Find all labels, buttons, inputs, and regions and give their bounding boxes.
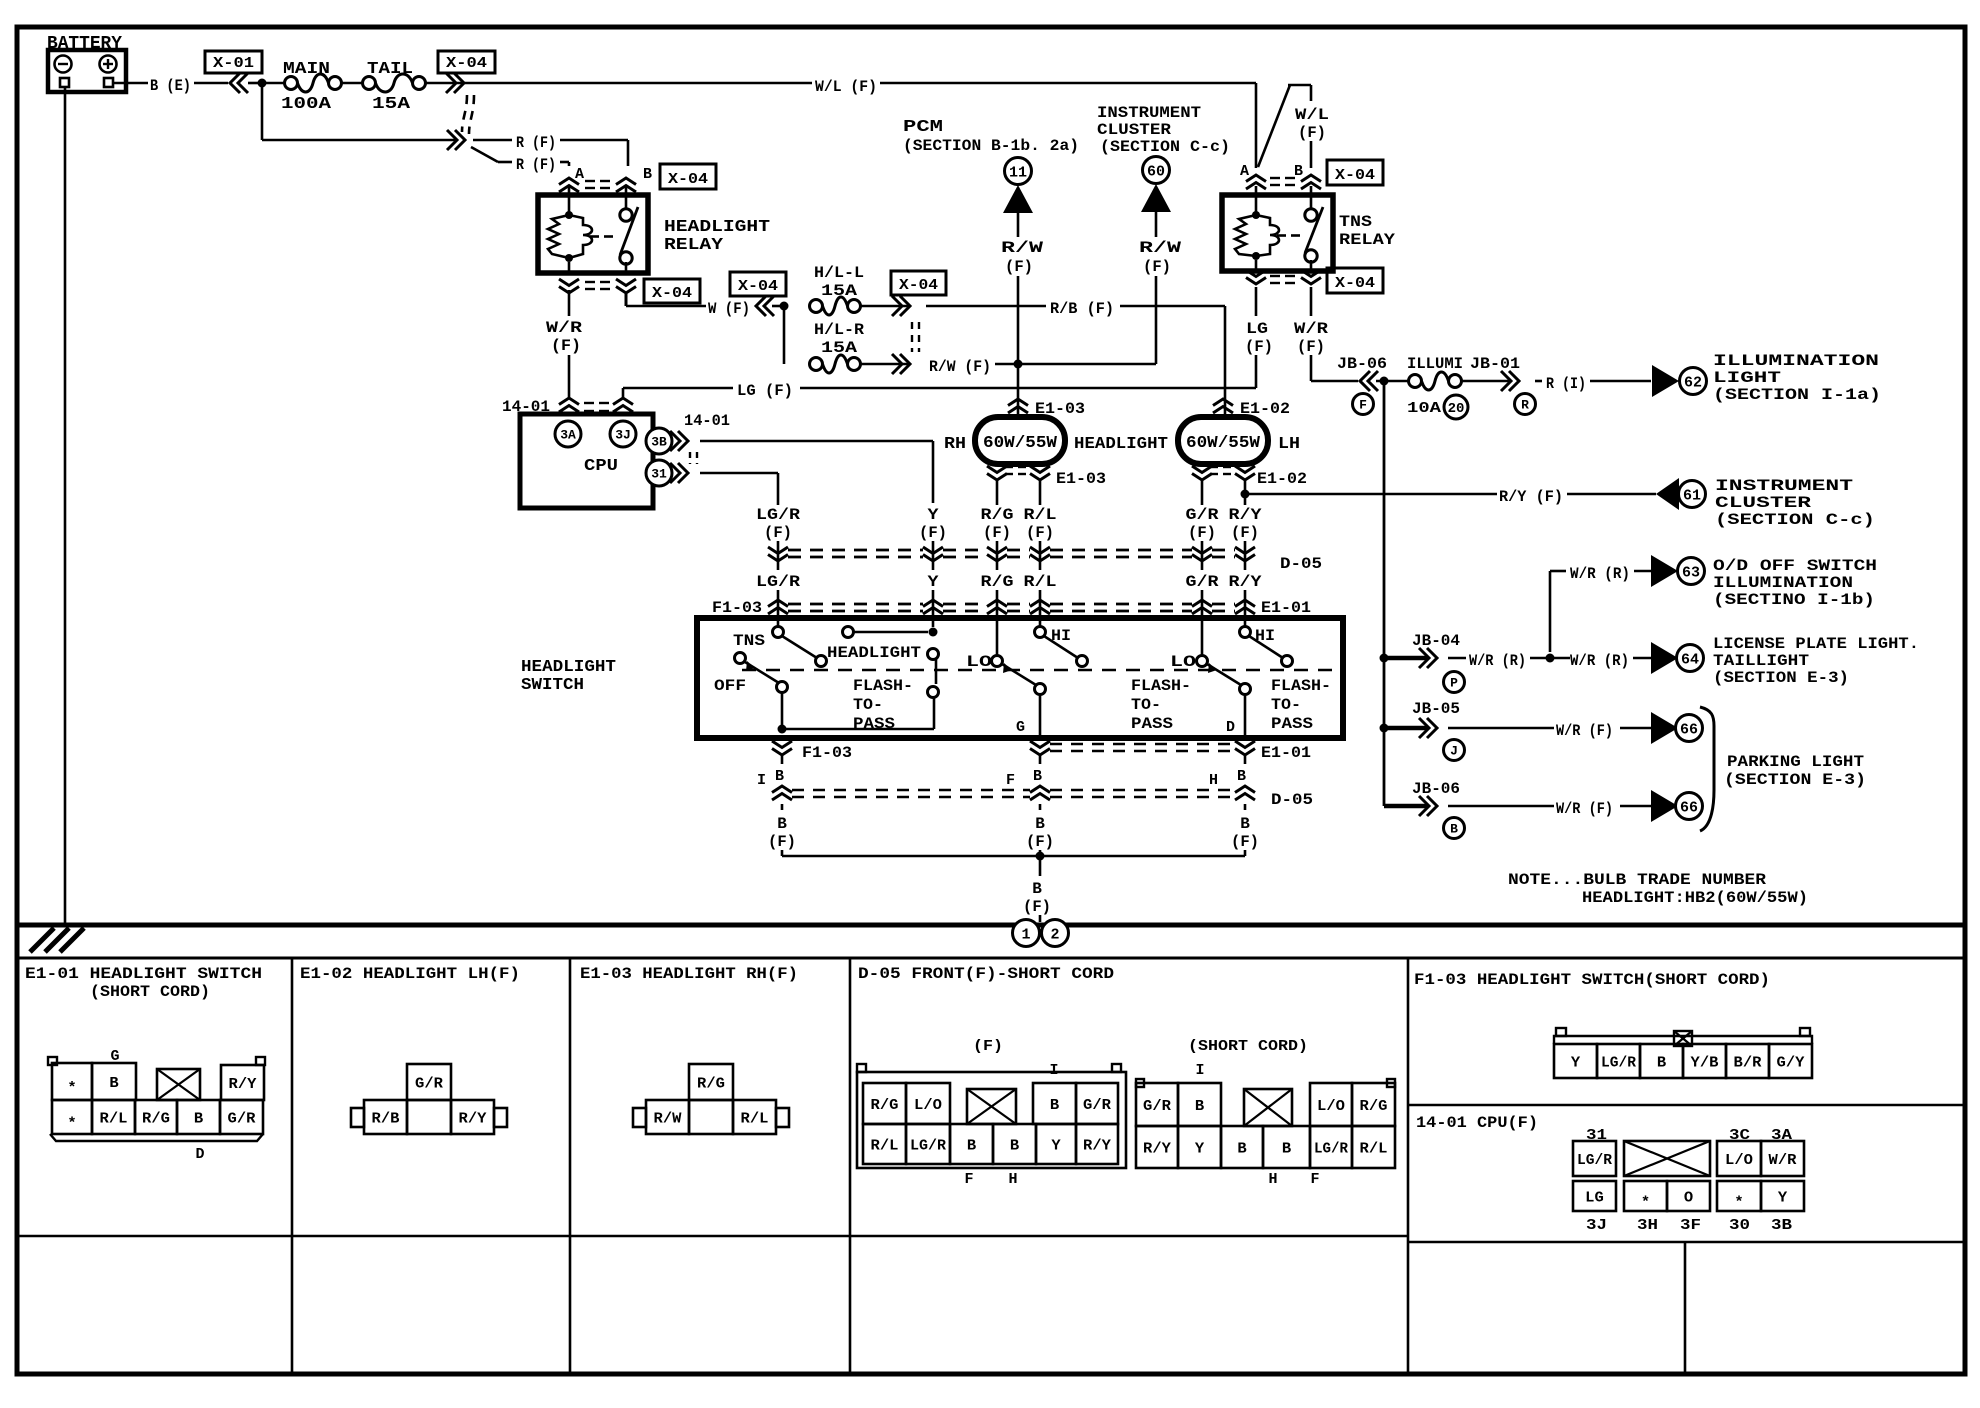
svg-text:B (E): B (E): [150, 77, 191, 95]
svg-text:G/Y: G/Y: [1777, 1054, 1805, 1071]
svg-text:F1-03: F1-03: [802, 744, 852, 762]
svg-text:CPU: CPU: [584, 457, 618, 476]
svg-text:B: B: [967, 1137, 976, 1154]
svg-text:R/Y: R/Y: [1083, 1137, 1111, 1154]
svg-text:R/W: R/W: [1139, 239, 1182, 257]
svg-text:(SHORT CORD): (SHORT CORD): [1188, 1038, 1308, 1055]
svg-text:A: A: [575, 166, 584, 183]
svg-text:X-04: X-04: [899, 277, 938, 294]
svg-text:B: B: [643, 166, 652, 183]
svg-text:G/R: G/R: [228, 1110, 256, 1127]
svg-text:E1-03: E1-03: [1056, 470, 1106, 488]
svg-text:62: 62: [1684, 374, 1702, 391]
svg-text:LICENSE PLATE LIGHT.: LICENSE PLATE LIGHT.: [1713, 635, 1919, 653]
svg-text:CLUSTER: CLUSTER: [1715, 494, 1812, 512]
svg-text:B: B: [109, 1075, 118, 1092]
svg-text:61: 61: [1683, 487, 1701, 504]
svg-text:B: B: [194, 1110, 203, 1127]
svg-text:B: B: [1033, 768, 1042, 785]
svg-text:60W/55W: 60W/55W: [983, 434, 1058, 453]
svg-text:B: B: [1282, 1140, 1291, 1157]
svg-text:R/L: R/L: [100, 1110, 128, 1127]
svg-text:(SECTION I-1a): (SECTION I-1a): [1713, 386, 1881, 404]
svg-text:B: B: [775, 768, 784, 785]
svg-text:HEADLIGHT: HEADLIGHT: [1074, 435, 1168, 454]
svg-text:F1-03 HEADLIGHT SWITCH(SHORT C: F1-03 HEADLIGHT SWITCH(SHORT CORD): [1414, 971, 1770, 989]
svg-text:R/Y: R/Y: [1229, 573, 1262, 591]
svg-text:L/O: L/O: [914, 1097, 942, 1114]
svg-text:G/R: G/R: [1186, 573, 1219, 591]
svg-text:I: I: [757, 772, 766, 789]
svg-text:R/Y: R/Y: [1229, 506, 1262, 524]
svg-text:10A: 10A: [1407, 400, 1441, 417]
svg-text:RELAY: RELAY: [664, 236, 724, 255]
svg-text:ILLUMI: ILLUMI: [1407, 355, 1463, 373]
svg-text:F: F: [964, 1171, 973, 1188]
svg-text:X-04: X-04: [652, 285, 692, 302]
svg-text:ILLUMINATION: ILLUMINATION: [1713, 352, 1879, 370]
svg-text:B: B: [777, 815, 787, 833]
svg-text:INSTRUMENT: INSTRUMENT: [1715, 477, 1854, 495]
svg-text:R/Y: R/Y: [1143, 1140, 1171, 1157]
svg-text:R/L: R/L: [741, 1110, 769, 1127]
svg-text:PARKING LIGHT: PARKING LIGHT: [1727, 753, 1864, 771]
svg-text:R/W (F): R/W (F): [929, 358, 991, 376]
svg-text:(F): (F): [1026, 524, 1054, 542]
svg-text:Y: Y: [928, 573, 939, 591]
svg-text:R/W: R/W: [654, 1110, 682, 1127]
svg-text:X-04: X-04: [1335, 167, 1375, 184]
svg-text:X-04: X-04: [668, 171, 708, 188]
svg-text:P: P: [1450, 676, 1458, 691]
svg-text:(F): (F): [1026, 833, 1054, 851]
svg-text:PCM: PCM: [903, 118, 943, 137]
svg-text:HEADLIGHT: HEADLIGHT: [521, 658, 616, 677]
svg-text:E1-02 HEADLIGHT LH(F): E1-02 HEADLIGHT LH(F): [300, 965, 520, 983]
svg-text:B: B: [1450, 822, 1458, 837]
svg-text:60W/55W: 60W/55W: [1186, 434, 1261, 453]
svg-text:(SECTION E-3): (SECTION E-3): [1713, 669, 1849, 687]
svg-text:R/Y: R/Y: [459, 1110, 487, 1127]
svg-text:JB-06: JB-06: [1412, 780, 1460, 798]
svg-text:LG/R: LG/R: [756, 506, 800, 524]
svg-text:FLASH-: FLASH-: [1131, 677, 1191, 695]
svg-text:R (F): R (F): [516, 134, 556, 152]
svg-text:W/R (F): W/R (F): [1556, 800, 1613, 818]
svg-text:CLUSTER: CLUSTER: [1097, 121, 1171, 139]
svg-text:R/G: R/G: [981, 506, 1014, 524]
svg-text:FLASH-: FLASH-: [853, 677, 913, 695]
svg-text:1: 1: [1021, 926, 1030, 943]
svg-text:F1-03: F1-03: [712, 599, 762, 617]
svg-text:R (F): R (F): [516, 156, 556, 174]
svg-text:(F): (F): [1023, 898, 1051, 916]
svg-text:3A: 3A: [560, 428, 576, 443]
svg-text:R/W: R/W: [1001, 239, 1044, 257]
svg-text:R/L: R/L: [1024, 506, 1057, 524]
svg-text:30: 30: [1729, 1217, 1750, 1234]
svg-text:(F): (F): [1297, 338, 1325, 356]
svg-text:R/B: R/B: [372, 1110, 400, 1127]
svg-text:A: A: [1240, 163, 1249, 180]
svg-text:11: 11: [1009, 164, 1027, 181]
svg-text:R/G: R/G: [697, 1075, 725, 1092]
svg-text:JB-01: JB-01: [1470, 355, 1520, 373]
svg-text:X-04: X-04: [446, 55, 487, 72]
svg-text:JB-04: JB-04: [1412, 632, 1460, 650]
svg-text:H: H: [1209, 772, 1218, 789]
svg-text:H: H: [1008, 1171, 1017, 1188]
svg-text:Y/B: Y/B: [1691, 1054, 1719, 1071]
svg-text:W/L: W/L: [1295, 106, 1329, 124]
svg-text:W/R (R): W/R (R): [1570, 565, 1630, 583]
svg-text:NOTE...BULB TRADE NUMBER: NOTE...BULB TRADE NUMBER: [1508, 871, 1766, 889]
svg-text:G/R: G/R: [415, 1075, 443, 1092]
svg-text:B: B: [1657, 1054, 1666, 1071]
svg-text:LG/R: LG/R: [1577, 1152, 1612, 1169]
svg-text:B: B: [1010, 1137, 1019, 1154]
svg-text:RELAY: RELAY: [1339, 231, 1395, 249]
svg-text:D: D: [195, 1146, 204, 1163]
svg-text:HEADLIGHT:HB2(60W/55W): HEADLIGHT:HB2(60W/55W): [1582, 889, 1808, 907]
svg-text:(F): (F): [973, 1038, 1003, 1055]
svg-text:B: B: [1035, 815, 1045, 833]
svg-text:3J: 3J: [615, 428, 631, 443]
svg-text:OFF: OFF: [714, 677, 746, 695]
svg-text:14-01: 14-01: [684, 412, 730, 430]
svg-text:*: *: [1641, 1194, 1650, 1211]
svg-text:O/D OFF SWITCH: O/D OFF SWITCH: [1713, 557, 1877, 575]
svg-text:B: B: [1032, 880, 1042, 898]
svg-text:PASS: PASS: [1271, 715, 1313, 733]
svg-text:LG/R: LG/R: [1314, 1140, 1348, 1157]
svg-text:G/R: G/R: [1083, 1097, 1111, 1114]
svg-text:W/R (F): W/R (F): [1556, 722, 1613, 740]
svg-text:B: B: [1294, 163, 1303, 180]
svg-text:B: B: [1050, 1097, 1059, 1114]
svg-text:TNS: TNS: [1339, 213, 1372, 231]
svg-text:B: B: [1237, 1140, 1246, 1157]
svg-text:W/R: W/R: [1294, 320, 1328, 338]
svg-text:(F): (F): [1298, 124, 1326, 142]
svg-text:R/G: R/G: [981, 573, 1014, 591]
svg-text:RH: RH: [944, 435, 966, 454]
svg-text:(F): (F): [1231, 524, 1259, 542]
svg-text:JB-06: JB-06: [1337, 355, 1387, 373]
svg-text:15A: 15A: [372, 95, 411, 114]
svg-text:L/O: L/O: [1725, 1152, 1753, 1169]
svg-text:LG: LG: [1585, 1189, 1604, 1206]
svg-text:R/G: R/G: [1360, 1098, 1388, 1115]
svg-text:Y: Y: [1778, 1189, 1787, 1206]
svg-text:(F): (F): [1143, 258, 1171, 276]
svg-text:(SECTION B-1b. 2a): (SECTION B-1b. 2a): [903, 137, 1079, 155]
svg-text:31: 31: [651, 467, 667, 482]
svg-text:Y: Y: [1051, 1137, 1060, 1154]
svg-text:ILLUMINATION: ILLUMINATION: [1713, 574, 1853, 592]
svg-text:E1-01 HEADLIGHT SWITCH: E1-01 HEADLIGHT SWITCH: [25, 965, 262, 983]
svg-text:W (F): W (F): [708, 300, 750, 318]
svg-text:TO-: TO-: [1271, 696, 1301, 714]
svg-text:14-01 CPU(F): 14-01 CPU(F): [1416, 1114, 1538, 1132]
svg-text:20: 20: [1448, 401, 1465, 417]
svg-text:LG (F): LG (F): [737, 382, 793, 400]
svg-text:64: 64: [1681, 651, 1699, 668]
svg-text:W/R (R): W/R (R): [1570, 652, 1629, 670]
svg-text:LG/R: LG/R: [910, 1137, 946, 1154]
svg-text:B: B: [1237, 768, 1246, 785]
svg-text:*: *: [67, 1080, 76, 1097]
svg-text:D: D: [1226, 719, 1235, 736]
svg-text:(SECTION C-c): (SECTION C-c): [1715, 511, 1875, 529]
svg-text:(SECTINO I-1b): (SECTINO I-1b): [1713, 591, 1875, 609]
svg-text:TO-: TO-: [853, 696, 883, 714]
svg-text:JB-05: JB-05: [1412, 700, 1460, 718]
svg-text:3F: 3F: [1680, 1217, 1701, 1234]
svg-text:3B: 3B: [1771, 1217, 1792, 1234]
svg-text:H: H: [1268, 1171, 1277, 1188]
svg-text:(SHORT CORD): (SHORT CORD): [90, 983, 210, 1001]
svg-text:R: R: [1521, 398, 1529, 413]
svg-text:(SECTION C-c): (SECTION C-c): [1100, 138, 1230, 156]
svg-text:X-04: X-04: [738, 278, 778, 295]
svg-text:(F): (F): [764, 524, 792, 542]
svg-text:INSTRUMENT: INSTRUMENT: [1097, 104, 1201, 122]
svg-text:D-05 FRONT(F)-SHORT CORD: D-05 FRONT(F)-SHORT CORD: [858, 965, 1114, 983]
svg-text:B/R: B/R: [1734, 1054, 1762, 1071]
svg-text:R/L: R/L: [871, 1137, 899, 1154]
svg-text:100A: 100A: [281, 95, 332, 114]
svg-text:R/G: R/G: [142, 1110, 170, 1127]
svg-text:H/L-L: H/L-L: [814, 264, 864, 282]
svg-text:TNS: TNS: [733, 632, 765, 650]
svg-text:R/Y: R/Y: [229, 1076, 257, 1093]
svg-text:66: 66: [1680, 721, 1698, 738]
svg-text:LO: LO: [966, 653, 993, 671]
svg-text:R/L: R/L: [1024, 573, 1057, 591]
svg-text:(SECTION E-3): (SECTION E-3): [1724, 771, 1866, 789]
svg-text:3H: 3H: [1637, 1217, 1658, 1234]
svg-text:FLASH-: FLASH-: [1271, 677, 1331, 695]
svg-text:I: I: [1195, 1062, 1204, 1079]
svg-text:D-05: D-05: [1271, 791, 1313, 809]
svg-text:3J: 3J: [1586, 1217, 1607, 1234]
svg-text:B: B: [1240, 815, 1250, 833]
svg-text:TAILLIGHT: TAILLIGHT: [1713, 652, 1809, 670]
svg-text:F: F: [1006, 772, 1015, 789]
svg-text:D-05: D-05: [1280, 555, 1322, 573]
svg-text:(F): (F): [551, 337, 581, 355]
svg-text:B: B: [1195, 1098, 1204, 1115]
svg-text:(F): (F): [1005, 258, 1033, 276]
svg-text:HEADLIGHT: HEADLIGHT: [664, 218, 770, 237]
svg-text:R/G: R/G: [871, 1097, 899, 1114]
svg-text:E1-02: E1-02: [1257, 470, 1307, 488]
svg-text:LG/R: LG/R: [1601, 1054, 1636, 1071]
svg-text:R (I): R (I): [1546, 375, 1586, 393]
svg-text:*: *: [67, 1115, 76, 1132]
svg-text:(F): (F): [1245, 338, 1273, 356]
svg-text:F: F: [1359, 398, 1367, 413]
svg-text:LG/R: LG/R: [756, 573, 800, 591]
svg-text:*: *: [1734, 1194, 1743, 1211]
svg-text:O: O: [1684, 1189, 1693, 1206]
svg-text:(F): (F): [768, 833, 796, 851]
svg-text:G/R: G/R: [1143, 1098, 1171, 1115]
svg-text:J: J: [1450, 744, 1458, 759]
svg-text:Y: Y: [1195, 1140, 1204, 1157]
svg-text:L/O: L/O: [1317, 1098, 1345, 1115]
svg-text:W/R: W/R: [1769, 1152, 1797, 1169]
svg-text:(F): (F): [983, 524, 1011, 542]
svg-text:HEADLIGHT: HEADLIGHT: [827, 644, 921, 662]
svg-text:Y: Y: [1571, 1054, 1580, 1071]
svg-text:G/R: G/R: [1186, 506, 1219, 524]
svg-text:LG: LG: [1246, 320, 1268, 338]
svg-text:W/R (R): W/R (R): [1469, 652, 1526, 670]
svg-text:H/L-R: H/L-R: [814, 321, 864, 339]
svg-text:F: F: [1310, 1171, 1319, 1188]
svg-text:R/Y (F): R/Y (F): [1499, 488, 1563, 506]
svg-text:66: 66: [1680, 799, 1698, 816]
svg-text:E1-01: E1-01: [1261, 744, 1311, 762]
svg-text:LH: LH: [1278, 435, 1300, 454]
svg-text:E1-01: E1-01: [1261, 599, 1311, 617]
svg-text:SWITCH: SWITCH: [521, 676, 584, 695]
svg-text:PASS: PASS: [1131, 715, 1173, 733]
svg-text:LO: LO: [1170, 653, 1197, 671]
svg-text:2: 2: [1050, 926, 1059, 943]
svg-text:(F): (F): [1188, 524, 1216, 542]
svg-text:R/L: R/L: [1360, 1140, 1388, 1157]
svg-text:(F): (F): [919, 524, 947, 542]
svg-text:X-04: X-04: [1335, 275, 1375, 292]
svg-text:TO-: TO-: [1131, 696, 1161, 714]
svg-text:Y: Y: [928, 506, 939, 524]
svg-text:3B: 3B: [651, 435, 667, 450]
svg-text:E1-03 HEADLIGHT RH(F): E1-03 HEADLIGHT RH(F): [580, 965, 798, 983]
svg-text:I: I: [1049, 1062, 1058, 1079]
svg-text:(F): (F): [1231, 833, 1259, 851]
svg-text:W/L (F): W/L (F): [815, 78, 877, 96]
svg-text:W/R: W/R: [546, 319, 582, 337]
svg-text:60: 60: [1147, 163, 1165, 180]
svg-text:G: G: [1016, 719, 1025, 736]
svg-text:LIGHT: LIGHT: [1713, 369, 1782, 387]
svg-text:63: 63: [1682, 564, 1700, 581]
svg-text:X-01: X-01: [213, 55, 254, 72]
svg-text:R/B (F): R/B (F): [1050, 300, 1114, 318]
